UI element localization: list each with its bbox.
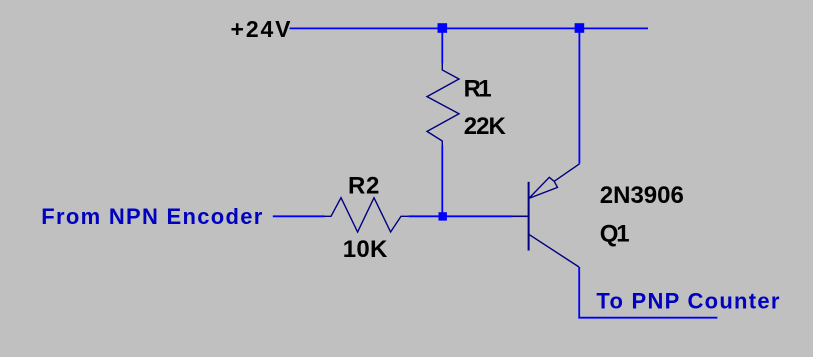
junction square at R1 top	[438, 23, 448, 33]
svg-text:R2: R2	[348, 172, 379, 199]
wire from NPN encoder to R2	[273, 215, 325, 217]
transistor Q1 base lead	[512, 215, 528, 217]
svg-text:2N3906: 2N3906	[600, 182, 684, 209]
svg-text:Q1: Q1	[600, 221, 630, 248]
wire emitter to rail	[578, 28, 580, 163]
resistor R2	[324, 198, 408, 232]
svg-text:10K: 10K	[343, 236, 388, 263]
resistor R1	[427, 64, 459, 146]
junction square at base node	[439, 212, 447, 220]
svg-text:+24V: +24V	[231, 16, 292, 42]
wire from R1 bottom to base node	[441, 146, 443, 217]
svg-text:22K: 22K	[464, 113, 507, 140]
transistor Q1 collector lead	[529, 234, 579, 267]
svg-text:From NPN Encoder: From NPN Encoder	[41, 204, 262, 229]
junction square at emitter top	[575, 23, 585, 33]
wire +24V rail	[290, 27, 649, 29]
svg-text:R1: R1	[464, 76, 492, 103]
svg-text:To PNP Counter: To PNP Counter	[596, 288, 779, 313]
wire collector down and right to PNP counter	[579, 267, 717, 318]
wire from R2 to base node and on to Q1 base	[408, 215, 512, 217]
wire from rail junction down to R1	[441, 28, 443, 63]
transistor Q1 emitter lead	[554, 164, 579, 182]
transistor Q1 emitter arrow	[529, 177, 558, 198]
transistor Q1 base bar	[528, 182, 530, 251]
